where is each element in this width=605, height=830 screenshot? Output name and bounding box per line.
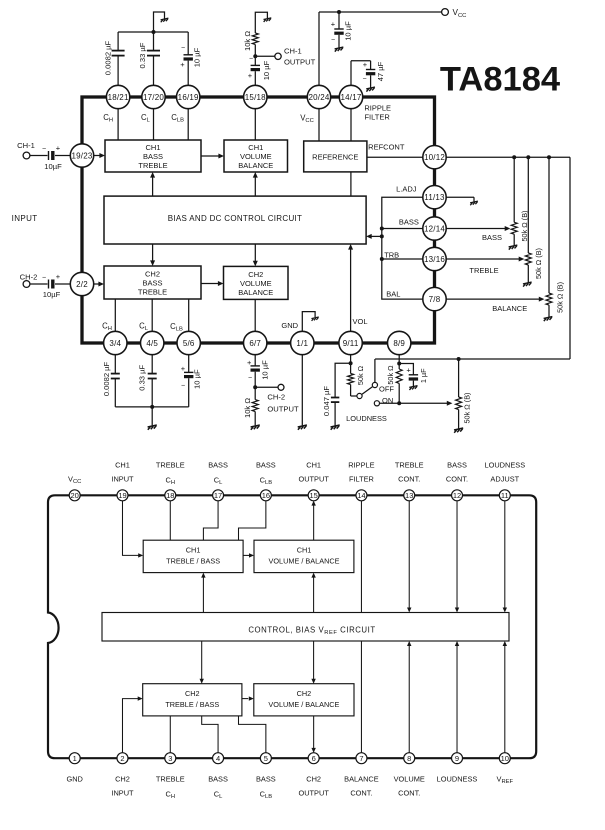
svg-text:10µF: 10µF [43,290,61,299]
svg-text:TA8184: TA8184 [440,61,560,99]
svg-text:VOLUME / BALANCE: VOLUME / BALANCE [268,700,339,709]
svg-text:10 µF: 10 µF [192,369,201,389]
svg-text:+: + [56,143,61,152]
svg-text:+: + [181,364,186,373]
svg-text:CH1: CH1 [145,143,160,152]
svg-text:BASS: BASS [256,461,276,470]
svg-text:+: + [247,358,252,367]
svg-text:CL: CL [214,476,223,487]
svg-text:5/6: 5/6 [183,339,195,348]
svg-text:CH2: CH2 [306,775,321,784]
svg-text:CLB: CLB [260,476,273,487]
svg-text:CONT.: CONT. [350,789,372,798]
svg-text:TRB: TRB [384,251,399,260]
svg-text:VOLUME: VOLUME [240,152,272,161]
svg-text:3/4: 3/4 [109,339,121,348]
svg-text:17: 17 [214,491,222,500]
svg-text:50k Ω (B): 50k Ω (B) [555,282,564,313]
svg-text:10 µF: 10 µF [192,47,201,67]
svg-text:CLB: CLB [170,322,183,333]
svg-text:BAL: BAL [386,289,400,298]
svg-text:9: 9 [455,754,459,763]
svg-text:CL: CL [139,322,149,333]
svg-text:OUTPUT: OUTPUT [284,58,316,67]
svg-text:BALANCE: BALANCE [238,161,273,170]
svg-text:10k Ω: 10k Ω [243,31,252,51]
svg-text:13: 13 [405,491,413,500]
svg-text:LOUDNESS: LOUDNESS [484,461,525,470]
svg-text:LOUDNESS: LOUDNESS [437,775,478,784]
svg-text:10 µF: 10 µF [344,21,353,41]
svg-text:14/17: 14/17 [340,93,361,102]
svg-text:BASS: BASS [208,461,228,470]
svg-text:6/7: 6/7 [249,339,261,348]
svg-text:−: − [331,37,335,44]
svg-text:CH2: CH2 [185,689,200,698]
svg-text:BASS: BASS [256,775,276,784]
svg-text:+: + [331,20,336,29]
svg-text:GND: GND [66,775,82,784]
svg-text:BALANCE: BALANCE [238,288,273,297]
svg-text:16: 16 [262,491,270,500]
svg-text:BASS: BASS [143,152,163,161]
svg-text:11: 11 [501,491,509,500]
svg-text:CH-2: CH-2 [267,392,285,401]
svg-text:0.33 µF: 0.33 µF [138,42,147,68]
svg-text:OUTPUT: OUTPUT [267,405,299,414]
svg-text:BASS: BASS [208,775,228,784]
svg-text:FILTER: FILTER [364,113,390,122]
svg-text:1: 1 [73,754,77,763]
svg-text:6: 6 [312,754,316,763]
svg-text:CH-1: CH-1 [17,141,35,150]
svg-text:VOLUME: VOLUME [240,279,272,288]
svg-text:TREBLE / BASS: TREBLE / BASS [165,700,219,709]
svg-text:10: 10 [501,754,509,763]
svg-text:VCC: VCC [68,475,81,486]
svg-text:−: − [42,274,46,281]
svg-text:GND: GND [281,321,298,330]
svg-text:TREBLE / BASS: TREBLE / BASS [166,557,220,566]
svg-text:CH1: CH1 [306,461,321,470]
svg-text:OUTPUT: OUTPUT [298,475,329,484]
svg-text:TREBLE: TREBLE [395,461,424,470]
svg-text:VOLUME: VOLUME [394,775,425,784]
svg-text:13/16: 13/16 [424,255,445,264]
svg-text:CH2: CH2 [248,270,263,279]
svg-text:FILTER: FILTER [349,475,374,484]
svg-text:19: 19 [118,491,126,500]
svg-text:OUTPUT: OUTPUT [298,789,329,798]
svg-text:CONT.: CONT. [398,789,420,798]
svg-text:50k Ω (B): 50k Ω (B) [534,248,543,279]
svg-text:CH: CH [166,476,176,487]
svg-text:CH: CH [166,790,176,801]
svg-text:15/18: 15/18 [245,93,266,102]
svg-text:0.047 µF: 0.047 µF [322,386,331,416]
svg-text:RIPPLE: RIPPLE [364,104,391,113]
svg-text:2/2: 2/2 [76,280,88,289]
svg-text:8: 8 [407,754,411,763]
svg-text:+: + [406,366,411,375]
svg-text:2: 2 [120,754,124,763]
svg-text:CONT.: CONT. [398,475,420,484]
svg-text:15: 15 [309,491,317,500]
svg-text:CONT.: CONT. [446,475,468,484]
svg-text:INPUT: INPUT [12,214,38,223]
svg-text:17/20: 17/20 [143,93,164,102]
svg-text:RIPPLE: RIPPLE [348,461,374,470]
svg-text:+: + [248,71,253,80]
svg-text:TREBLE: TREBLE [156,461,185,470]
svg-text:+: + [180,60,185,69]
svg-text:INPUT: INPUT [111,789,134,798]
svg-text:20/24: 20/24 [308,93,329,102]
svg-text:10 µF: 10 µF [262,60,271,80]
svg-text:REFERENCE: REFERENCE [312,153,358,162]
svg-text:CH-1: CH-1 [284,47,302,56]
svg-text:3: 3 [168,754,172,763]
svg-text:BASS: BASS [142,279,162,288]
svg-text:10µF: 10µF [44,162,62,171]
svg-text:10 µF: 10 µF [261,360,270,380]
svg-text:BALANCE: BALANCE [492,304,527,313]
svg-text:INPUT: INPUT [111,475,134,484]
svg-text:OFF: OFF [379,385,394,394]
svg-text:0.33 µF: 0.33 µF [138,364,147,390]
svg-text:CH1: CH1 [115,461,130,470]
svg-text:10/12: 10/12 [424,153,445,162]
svg-text:−: − [362,76,366,83]
svg-text:TREBLE: TREBLE [138,161,167,170]
svg-text:10k Ω: 10k Ω [243,398,252,418]
svg-text:VOL: VOL [353,317,368,326]
svg-text:CLB: CLB [260,790,273,801]
svg-text:TREBLE: TREBLE [469,266,498,275]
svg-text:CL: CL [141,113,151,124]
svg-text:50k Ω (B): 50k Ω (B) [463,392,472,423]
svg-text:9/11: 9/11 [343,339,359,348]
svg-text:−: − [248,375,252,382]
svg-text:1 µF: 1 µF [419,368,428,383]
svg-text:VOLUME / BALANCE: VOLUME / BALANCE [269,557,340,566]
svg-text:CH1: CH1 [186,546,201,555]
svg-text:ON: ON [382,396,393,405]
svg-text:−: − [42,146,46,153]
svg-text:18: 18 [166,491,174,500]
svg-text:CH-2: CH-2 [20,272,38,281]
svg-text:11/13: 11/13 [424,193,445,202]
svg-text:50k Ω: 50k Ω [356,365,365,385]
svg-text:CH: CH [103,113,113,124]
svg-text:18/21: 18/21 [108,93,129,102]
svg-text:16/19: 16/19 [178,93,199,102]
svg-text:+: + [363,60,368,69]
svg-text:BIAS AND DC CONTROL CIRCUI: BIAS AND DC CONTROL CIRCUIT [168,214,302,223]
svg-text:4: 4 [216,754,220,763]
svg-text:+: + [56,272,61,281]
svg-text:−: − [181,45,185,52]
svg-text:7/8: 7/8 [429,295,441,304]
svg-text:REFCONT: REFCONT [368,142,405,151]
svg-text:0.0082 µF: 0.0082 µF [102,361,111,396]
svg-text:BALANCE: BALANCE [344,775,379,784]
svg-text:CH2: CH2 [297,689,312,698]
svg-text:19/23: 19/23 [71,151,92,160]
svg-text:CL: CL [214,790,223,801]
svg-text:VCC: VCC [453,8,467,19]
svg-text:CH1: CH1 [248,143,263,152]
svg-text:7: 7 [359,754,363,763]
svg-text:4/5: 4/5 [146,339,158,348]
svg-text:VREF: VREF [497,775,514,786]
svg-text:CH: CH [102,322,112,333]
svg-text:0.0082 µF: 0.0082 µF [104,40,113,75]
svg-text:14: 14 [357,491,365,500]
svg-text:BASS: BASS [447,461,467,470]
svg-text:50k Ω: 50k Ω [386,365,395,385]
svg-text:TREBLE: TREBLE [138,288,167,297]
svg-text:−: − [249,56,253,63]
svg-text:1/1: 1/1 [296,339,308,348]
svg-text:ADJUST: ADJUST [490,475,519,484]
svg-text:20: 20 [71,491,79,500]
svg-text:CH2: CH2 [145,270,160,279]
svg-text:12: 12 [453,491,461,500]
svg-text:BASS: BASS [482,233,502,242]
svg-text:47 µF: 47 µF [376,61,385,81]
svg-text:CH2: CH2 [115,775,130,784]
svg-text:8/9: 8/9 [393,339,405,348]
svg-text:CH1: CH1 [297,546,312,555]
svg-text:12/14: 12/14 [424,224,445,233]
svg-text:5: 5 [264,754,268,763]
svg-text:VCC: VCC [300,114,314,125]
svg-text:BASS: BASS [399,218,419,227]
svg-text:CLB: CLB [171,113,184,124]
svg-text:L.ADJ: L.ADJ [396,185,417,194]
svg-text:LOUDNESS: LOUDNESS [346,414,387,423]
svg-text:−: − [181,383,185,390]
svg-text:TREBLE: TREBLE [156,775,185,784]
